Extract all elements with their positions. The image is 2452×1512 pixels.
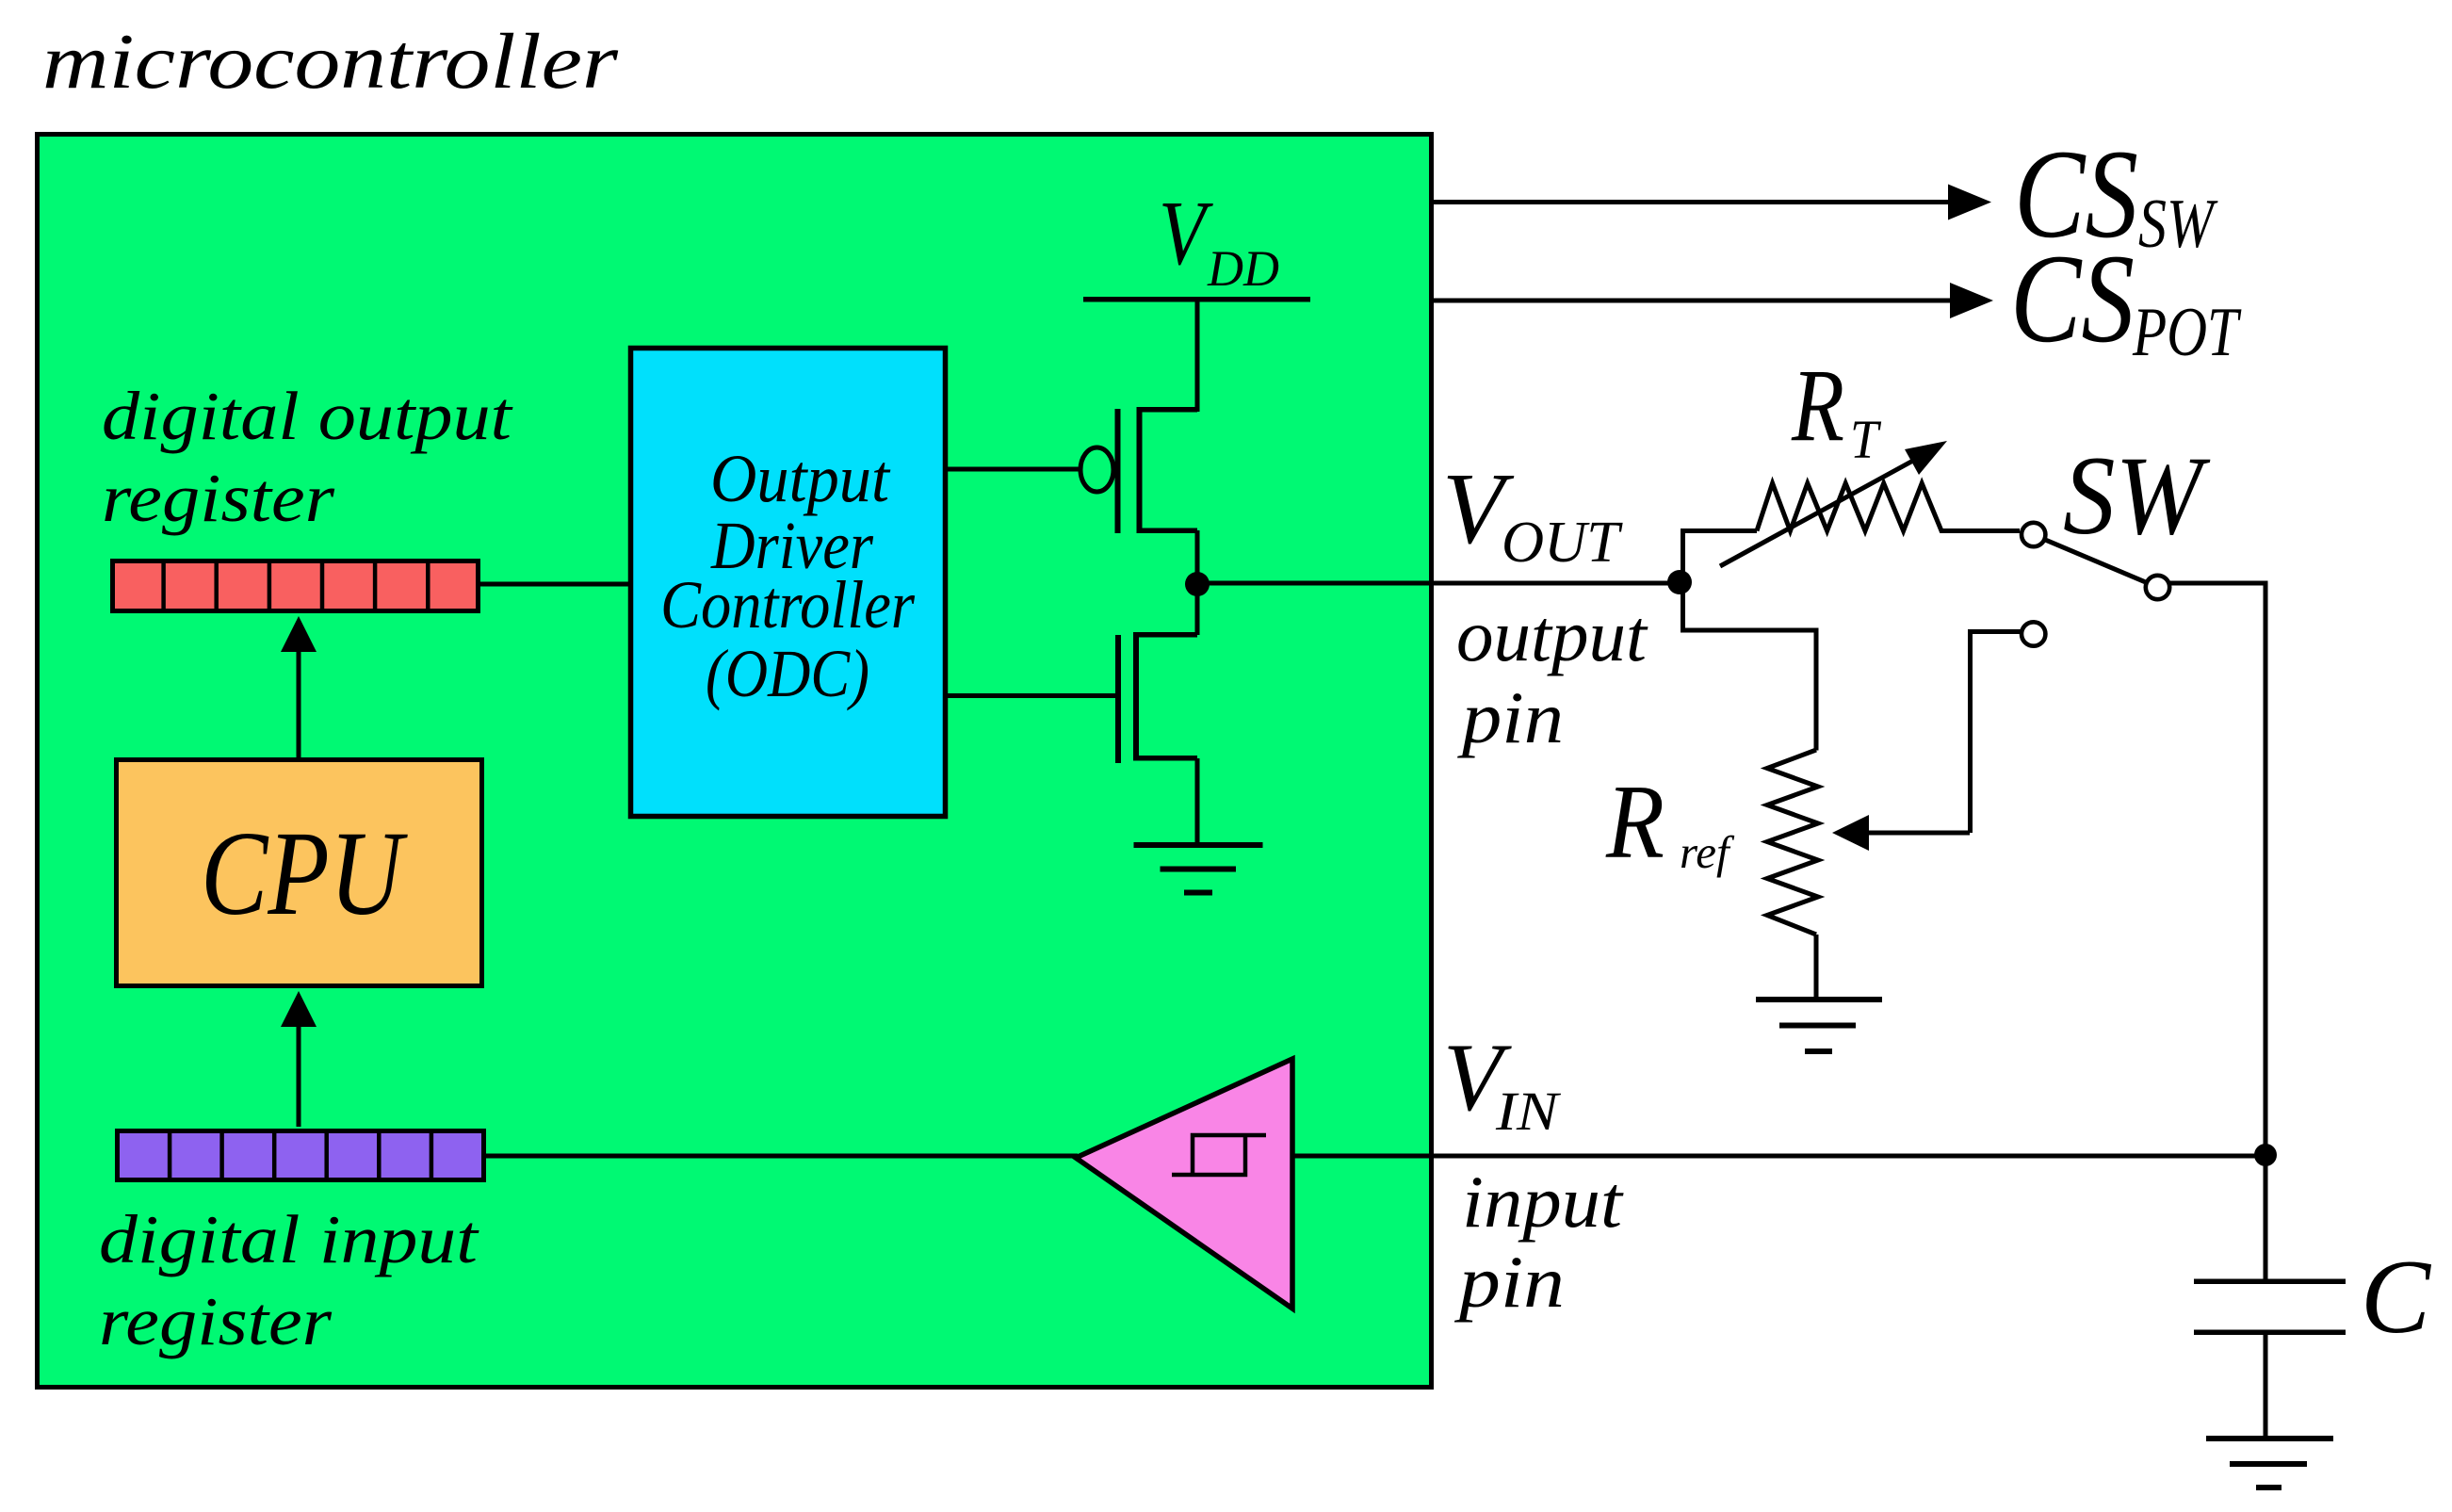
wire: schmitt trigger to V_IN node xyxy=(1292,1154,2265,1159)
wire: ODC to PMOS gate xyxy=(948,467,1080,472)
schmitt trigger U1 (input buffer) xyxy=(1076,1059,1292,1309)
switch SW lever xyxy=(2046,540,2145,581)
svg-text:SW: SW xyxy=(2138,186,2218,263)
wire: PMOS drain to output node xyxy=(1195,530,1200,584)
V_DD supply bar xyxy=(1083,297,1310,412)
label R_ref xyxy=(1605,764,1735,881)
ground (below NMOS) xyxy=(1134,842,1263,896)
label: input pin xyxy=(1453,1161,1624,1323)
svg-text:R: R xyxy=(1605,764,1664,881)
switch SW contact 2 xyxy=(2146,576,2169,599)
label V_OUT xyxy=(1442,453,1624,575)
wire: NMOS source to ground xyxy=(1195,758,1200,845)
svg-text:DD: DD xyxy=(1207,240,1279,297)
node: V_OUT junction xyxy=(1667,570,1692,594)
wire: CS_SW with arrowhead xyxy=(1434,185,1991,220)
resistor R_ref (zigzag) xyxy=(1767,750,1818,935)
switch SW contact 1 xyxy=(2022,523,2045,546)
capacitor C xyxy=(2194,1279,2346,1441)
svg-text:Controller: Controller xyxy=(660,567,916,642)
svg-text:digital output: digital output xyxy=(102,378,513,454)
microcontroller block (green box) xyxy=(38,135,1432,1388)
svg-text:(ODC): (ODC) xyxy=(706,636,869,711)
node: V_IN junction xyxy=(2254,1144,2277,1166)
Output Driver Controller (ODC) block xyxy=(631,349,946,817)
resistor R_T (variable, zigzag) xyxy=(1757,483,2020,531)
svg-text:R: R xyxy=(1791,348,1844,463)
wire: CS_POT with arrowhead xyxy=(1434,283,1993,318)
wire: output node to NMOS drain xyxy=(1195,584,1200,635)
label V_DD xyxy=(1159,183,1279,297)
svg-text:SW: SW xyxy=(2063,432,2211,558)
wire: output node to V_OUT node xyxy=(1197,581,1680,586)
svg-text:input: input xyxy=(1462,1161,1624,1243)
label CS_POT xyxy=(2010,229,2242,371)
ground (below capacitor) xyxy=(2206,1436,2333,1490)
wire: R_ref to ground xyxy=(1814,935,1819,999)
svg-text:output: output xyxy=(1456,594,1648,676)
arrow through R_T (variable symbol) xyxy=(1720,441,1947,566)
svg-text:Output: Output xyxy=(710,441,891,516)
arrow: CPU to output register xyxy=(281,616,317,759)
wire: right rail down to capacitor xyxy=(2264,581,2268,1282)
digital input register (7-cell row) xyxy=(118,1131,484,1180)
CPU block xyxy=(117,760,482,986)
wire: input register to schmitt trigger xyxy=(486,1154,1078,1159)
svg-text:ref: ref xyxy=(1680,826,1735,878)
label CS_SW xyxy=(2014,124,2218,265)
svg-text:register: register xyxy=(102,460,335,536)
label R_T xyxy=(1791,348,1881,470)
wire: SW to right rail xyxy=(2169,581,2267,586)
ground (below R_ref) xyxy=(1756,997,1882,1054)
node: CMOS output junction xyxy=(1185,572,1210,596)
svg-text:digital input: digital input xyxy=(99,1201,479,1277)
svg-text:CS: CS xyxy=(2010,229,2135,369)
wire: ODC to NMOS gate xyxy=(948,693,1115,698)
svg-text:C: C xyxy=(2361,1239,2431,1356)
label: digital output register xyxy=(102,378,513,536)
wire: node up to R_T xyxy=(1681,528,1757,582)
transistor Q2 (NMOS) xyxy=(1115,632,1197,763)
svg-text:OUT: OUT xyxy=(1502,511,1624,575)
wiper wire: contact 3 to R_ref arrow xyxy=(1832,629,2022,851)
switch SW lower contact 3 xyxy=(2022,622,2045,645)
svg-text:pin: pin xyxy=(1453,1241,1565,1323)
label: output pin xyxy=(1456,594,1648,758)
svg-text:IN: IN xyxy=(1495,1081,1562,1142)
wire: node down to R_ref xyxy=(1681,582,1819,751)
transistor Q1 (PMOS) xyxy=(1080,407,1197,533)
svg-text:POT: POT xyxy=(2132,294,2242,371)
svg-text:T: T xyxy=(1850,409,1881,470)
wire: output register to ODC xyxy=(478,582,630,587)
arrow: input register to CPU xyxy=(281,991,317,1127)
digital output register (7-cell row) xyxy=(113,561,479,611)
svg-text:pin: pin xyxy=(1457,676,1564,758)
svg-text:V: V xyxy=(1159,183,1213,284)
svg-text:register: register xyxy=(99,1283,333,1359)
svg-text:microcontroller: microcontroller xyxy=(42,18,618,106)
svg-text:CPU: CPU xyxy=(201,806,408,940)
label V_IN xyxy=(1443,1024,1562,1142)
label: digital input register xyxy=(99,1201,479,1359)
